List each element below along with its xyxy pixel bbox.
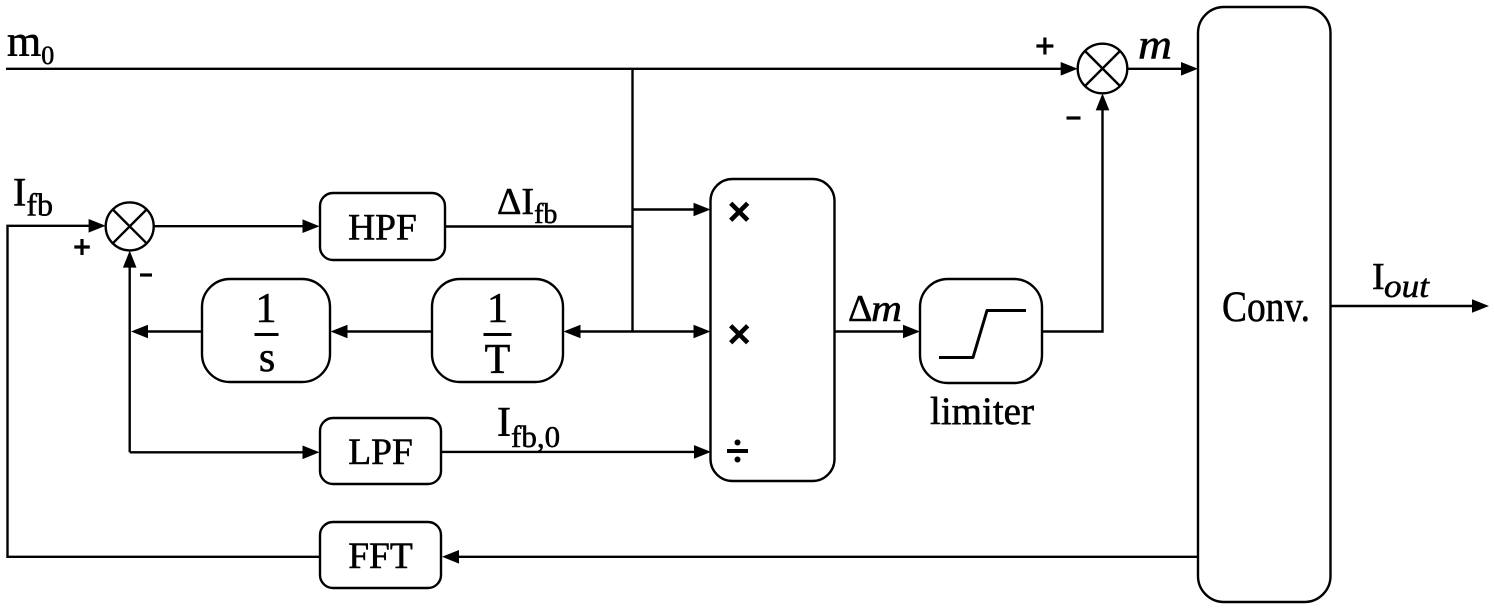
wire 1/s output to vertical feedback line xyxy=(131,325,202,339)
minus sign at S1 xyxy=(140,273,152,276)
svg-text:T: T xyxy=(485,337,511,383)
block HPF xyxy=(320,193,445,260)
svg-text:Δ: Δ xyxy=(848,288,872,330)
label fraction 1/T xyxy=(484,286,512,383)
wire FFT output feedback up-left to S1 xyxy=(8,219,321,557)
svg-text:LPF: LPF xyxy=(348,432,413,473)
label fraction 1/s xyxy=(255,286,279,381)
wire 1/T to 1/s xyxy=(331,325,433,339)
wire vertical minus-feedback line at x=129.7 xyxy=(123,251,137,453)
plus sign at S1 xyxy=(74,239,90,255)
svg-text:1: 1 xyxy=(487,286,508,332)
limiter saturation symbol xyxy=(939,311,1026,358)
svg-text:Ifb: Ifb xyxy=(13,170,53,223)
svg-text:out: out xyxy=(1384,269,1430,305)
wire S1 output to HPF xyxy=(154,219,320,233)
wire junction to multiplier x2 input xyxy=(633,325,711,339)
multiply symbol x1 xyxy=(731,203,748,220)
arrowhead m0 into summing junction S2 xyxy=(1061,62,1078,76)
svg-text:m: m xyxy=(1138,22,1172,68)
wire multiplier output to limiter xyxy=(835,325,921,339)
svg-text:Ifb,0: Ifb,0 xyxy=(497,400,560,454)
divide symbol xyxy=(727,440,748,463)
wire branch to multiplier x1 input xyxy=(633,203,711,217)
svg-text:ΔIfb: ΔIfb xyxy=(497,181,557,230)
wire Conv bottom feedback to FFT xyxy=(442,550,1198,564)
wire Conv output Iout xyxy=(1330,299,1489,313)
wire HPF output xyxy=(445,225,633,227)
wire m0 branch vertical at x=632.5 xyxy=(631,69,633,332)
plus sign at S2 xyxy=(1036,38,1053,55)
wire junction to 1/T input xyxy=(564,325,633,339)
block FFT xyxy=(320,522,441,588)
block Conv xyxy=(1198,7,1331,602)
svg-text:I: I xyxy=(1372,256,1385,298)
block multiplier-divider xyxy=(711,179,835,481)
svg-text:limiter: limiter xyxy=(930,390,1034,433)
wire limiter output up to summing junction S2 xyxy=(1042,93,1109,331)
block limiter xyxy=(920,279,1042,383)
wire feedback to LPF input xyxy=(130,446,320,460)
svg-text:FFT: FFT xyxy=(348,536,413,577)
block LPF xyxy=(320,418,441,484)
svg-text:1: 1 xyxy=(256,286,277,332)
block 1/s xyxy=(202,279,330,382)
svg-text:HPF: HPF xyxy=(348,208,417,249)
svg-text:s: s xyxy=(259,335,275,381)
wire m0 main line xyxy=(6,68,1066,70)
minus sign at S2 xyxy=(1067,116,1081,119)
block 1/T xyxy=(432,279,563,382)
summing junction S2 circle with X xyxy=(1078,44,1128,94)
svg-text:m0: m0 xyxy=(7,17,54,70)
wire S2 output to Conv xyxy=(1127,62,1198,76)
multiply symbol x2 xyxy=(731,326,748,343)
svg-text:m: m xyxy=(871,288,902,330)
summing junction S1 circle with X xyxy=(106,202,154,250)
svg-text:Conv.: Conv. xyxy=(1222,284,1310,331)
wire LPF output to divider input xyxy=(441,445,711,459)
